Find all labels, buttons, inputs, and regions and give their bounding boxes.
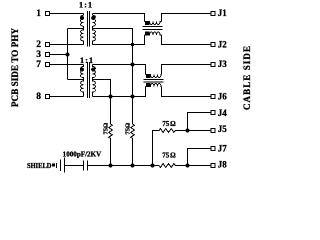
J6 terminal [211, 95, 215, 99]
R4 label 75ohm [162, 151, 176, 159]
wire choke CM1 A to J1 [162, 14, 212, 22]
shield terminal [52, 164, 55, 167]
SHIELD label [27, 162, 52, 170]
resistor R1 75ohm vertical (T2 CT termination) [109, 124, 113, 166]
resistor R4 75ohm inline (J7/J8 termination) [159, 164, 211, 168]
wire T2 secondary CT down (V1) [93, 80, 111, 125]
bottom common wire with inline resistor R4 [88, 165, 160, 167]
transformer T2 core [87, 62, 89, 98]
CM2 winding B phase dot [146, 83, 150, 86]
transformer T2 label 1:1 [80, 55, 94, 65]
resistor R3 75ohm horizontal (J4/J5 termination) [153, 129, 212, 166]
choke CM1 winding B [145, 32, 162, 35]
pin 8 label [36, 92, 41, 102]
pin 2 terminal [46, 43, 50, 47]
pin 3 label [36, 50, 41, 60]
svg-text:2: 2 [36, 40, 41, 50]
wire ground to capacitor [65, 165, 84, 167]
J3 label [218, 59, 228, 69]
junction V1 x T2 bottom wire [109, 95, 113, 99]
transformer T1 core [87, 11, 89, 47]
svg-text:J6: J6 [218, 92, 228, 102]
J1 terminal [211, 12, 215, 16]
wire T1 secondary bottom to choke CM1 lower [93, 35, 145, 44]
junction V2 x T1 bottom wire [131, 43, 134, 46]
junction R3 on bottom wire [151, 164, 155, 168]
svg-text:J5: J5 [218, 124, 228, 134]
svg-text:75Ω: 75Ω [102, 123, 109, 135]
J4 terminal [211, 111, 215, 115]
pin 1 terminal [46, 12, 50, 16]
CM1 winding A phase dot [145, 22, 149, 25]
wire pin7 to T2 primary top (crosses CT bus) [50, 64, 84, 66]
wire J4 down to J5 node [188, 113, 212, 131]
svg-text:J2: J2 [218, 40, 228, 50]
wire T1 secondary top to choke CM1 [93, 14, 145, 22]
transformer T2 secondary winding [93, 65, 96, 97]
svg-text:CABLE SIDE: CABLE SIDE [242, 46, 252, 110]
wire pin1 to T1 primary top [50, 13, 84, 15]
wire T2 secondary top to choke CM2 [93, 65, 146, 75]
junction J4/J5 [186, 129, 190, 133]
wire choke CM2 A to J3 [162, 65, 212, 75]
wire choke CM1 B to J2 [162, 35, 212, 45]
capacitor C1 1000pF/2KV [83, 161, 85, 171]
J6 label [218, 92, 228, 102]
wire T1 secondary CT down (V2) [93, 29, 133, 125]
wire T1 primary CT stub [68, 28, 84, 30]
T1 secondary phase dot [91, 16, 95, 20]
svg-text:75Ω: 75Ω [124, 123, 131, 135]
svg-text:J4: J4 [218, 108, 228, 118]
junction R2 on bottom wire [131, 164, 135, 168]
junction V2 x T2 top wire [131, 63, 135, 67]
wire choke CM2 B to J6 [162, 87, 212, 97]
J7 terminal [211, 147, 215, 151]
choke CM1 core [143, 26, 163, 28]
wire pin3 to CT bus [50, 54, 68, 56]
svg-text:1: 1 [36, 9, 41, 19]
junction R1 on bottom wire [109, 164, 113, 168]
J4 label [218, 108, 228, 118]
junction pin3 on CT bus [66, 53, 70, 57]
R1 label 75ohm rotated [102, 123, 109, 135]
pin 7 terminal [46, 63, 50, 67]
transformer T2 primary winding [81, 65, 84, 97]
wire pin8 to T2 primary bottom [50, 96, 84, 98]
R3 label 75ohm [162, 120, 176, 128]
choke CM2 winding A [146, 75, 162, 78]
svg-text:8: 8 [36, 92, 41, 102]
transformer T1 label 1:1 [79, 0, 93, 10]
resistor R2 75ohm vertical (T1 CT termination) [131, 124, 135, 166]
J5 terminal [211, 129, 215, 133]
R2 label 75ohm rotated [124, 123, 131, 135]
choke CM1 winding A [145, 22, 162, 25]
pin 7 label [36, 60, 41, 70]
J2 label [218, 40, 228, 50]
svg-text:1000pF/2KV: 1000pF/2KV [63, 151, 101, 159]
transformer T1 primary winding [81, 14, 84, 45]
T2 secondary phase dot [91, 68, 95, 72]
T1 primary phase dot [80, 16, 84, 20]
node: PHY side label [10, 28, 20, 108]
wire T2 primary CT stub [68, 79, 84, 81]
svg-text:75Ω: 75Ω [162, 151, 176, 159]
svg-text:J8: J8 [218, 160, 228, 170]
svg-text:3: 3 [36, 50, 41, 60]
wire CT bus vertical (T1 primary CT to T2 primary CT) [67, 29, 69, 80]
J3 terminal [211, 63, 215, 67]
svg-text:SHIELD: SHIELD [27, 162, 52, 170]
wire pin2 to T1 primary bottom (crosses CT bus) [50, 44, 84, 46]
J1 label [218, 8, 228, 18]
svg-text:J3: J3 [218, 59, 228, 69]
J2 terminal [211, 43, 215, 47]
choke CM2 core [144, 79, 164, 81]
transformer T1 secondary winding [93, 14, 96, 45]
pin 8 terminal [46, 95, 50, 99]
J8 label [218, 160, 228, 170]
pin 1 label [36, 9, 41, 19]
choke CM2 winding B [146, 83, 162, 86]
C1 label 1000pF/2KV [63, 151, 101, 159]
svg-text:7: 7 [36, 60, 41, 70]
svg-text:J1: J1 [218, 8, 228, 18]
pin 2 label [36, 40, 41, 50]
svg-text:75Ω: 75Ω [162, 120, 176, 128]
junction J7/J8 [186, 164, 190, 168]
node: cable side label [242, 46, 252, 110]
wire J7 down to J8 node [188, 149, 212, 166]
chassis ground symbol [56, 163, 58, 168]
T2 primary phase dot [80, 68, 84, 72]
CM2 winding A phase dot [146, 75, 150, 78]
wire T2 secondary bottom to choke CM2 lower [93, 87, 146, 97]
junction V2 x T2 bottom wire [131, 95, 135, 99]
svg-text:J7: J7 [218, 143, 228, 153]
CM1 winding B phase dot [145, 32, 149, 35]
J7 label [218, 143, 228, 153]
J8 terminal [211, 164, 215, 168]
J5 label [218, 124, 228, 134]
pin 3 terminal [46, 53, 50, 57]
svg-text:PCB SIDE TO PHY: PCB SIDE TO PHY [10, 28, 20, 108]
svg-text:1:1: 1:1 [79, 0, 93, 10]
